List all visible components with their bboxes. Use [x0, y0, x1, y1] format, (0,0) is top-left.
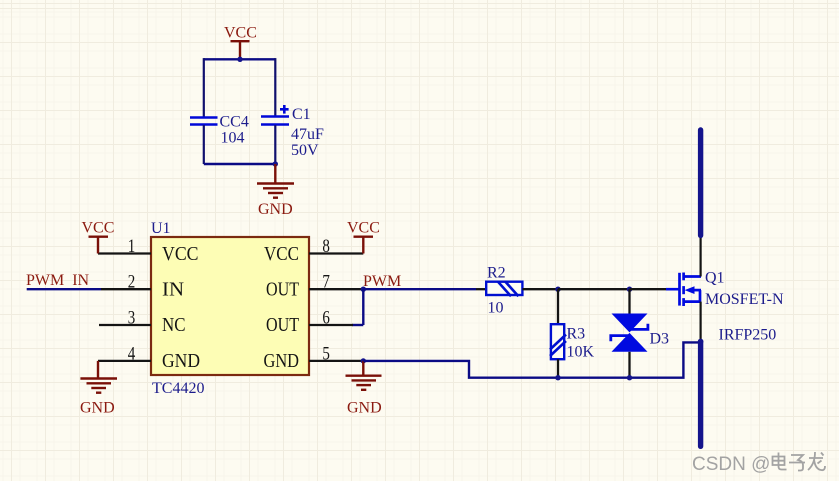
svg-text:R3: R3 — [567, 326, 586, 343]
wire: R2 to R3 node — [522, 288, 558, 290]
capacitor CC4 — [190, 118, 218, 125]
wire: node to D3 node — [558, 288, 630, 290]
svg-text:6: 6 — [322, 308, 330, 329]
pin 5 — [309, 360, 363, 362]
resistor R2 — [486, 282, 522, 297]
svg-text:VCC: VCC — [224, 25, 257, 42]
junction dot above GND — [273, 161, 278, 166]
svg-text:7: 7 — [322, 272, 330, 293]
wire: R3 top lead — [557, 289, 559, 324]
svg-text:4: 4 — [128, 343, 136, 364]
svg-text:PWM IN: PWM IN — [26, 272, 90, 289]
svg-text:PWM: PWM — [363, 273, 401, 290]
svg-text:5: 5 — [322, 343, 330, 364]
ground symbol (top circuit) — [257, 164, 294, 198]
svg-text:VCC: VCC — [347, 220, 380, 237]
svg-text:3: 3 — [128, 308, 136, 329]
svg-text:TC4420: TC4420 — [152, 380, 204, 397]
wire: pin7 to pin6 vertical — [362, 289, 364, 325]
wire: C1 bottom lead — [274, 125, 276, 164]
svg-text:10K: 10K — [567, 344, 595, 361]
ground symbol (pin 4) — [80, 361, 117, 393]
svg-text:47uF: 47uF — [291, 126, 324, 143]
wire PWM_IN — [27, 288, 101, 290]
power port VCC (top) — [231, 41, 250, 59]
svg-text:2: 2 — [128, 272, 136, 293]
svg-text:R2: R2 — [487, 265, 506, 282]
svg-text:CC4: CC4 — [220, 114, 249, 131]
wire: CC4 bottom lead — [203, 125, 205, 164]
pin 8 — [309, 252, 363, 254]
power port VCC (pin 8) — [354, 237, 374, 254]
Q1 arrow — [685, 286, 695, 294]
pin 6 — [309, 324, 353, 326]
svg-text:GND: GND — [258, 201, 293, 218]
svg-text:8: 8 — [322, 236, 330, 257]
power port VCC (pin 1) — [89, 237, 109, 254]
wire: PWM to R2 — [363, 288, 476, 290]
wire: D3 bottom lead — [628, 352, 630, 378]
wire: pin5 to bottom rail — [363, 342, 700, 377]
resistor R3 — [550, 324, 566, 359]
svg-text:MOSFET-N: MOSFET-N — [705, 291, 784, 308]
junction dot D3 bottom — [627, 375, 632, 380]
svg-text:OUT: OUT — [266, 280, 299, 301]
svg-text:VCC: VCC — [82, 220, 115, 237]
pin 2 — [101, 288, 151, 290]
op-amp/driver U1 body — [151, 237, 309, 375]
ground symbol (pin 5) — [346, 361, 382, 390]
junction dot at VCC stub — [237, 57, 242, 62]
wire: pin6 corner — [352, 324, 363, 326]
junction dot R3 top node — [555, 287, 560, 292]
wire: thick drain bus — [698, 130, 703, 236]
junction dot pin 5 — [361, 358, 366, 363]
svg-text:OUT: OUT — [266, 315, 299, 336]
wire: R3 bottom lead — [557, 359, 559, 378]
transistor Q1 symbol — [680, 273, 702, 307]
svg-text:C1: C1 — [292, 106, 311, 123]
wire: top horizontal — [204, 58, 275, 60]
wire: node to Q1 gate — [630, 288, 667, 290]
junction dot Q1 source — [698, 339, 704, 345]
pin 4 — [98, 360, 151, 362]
wire: thick source bus — [698, 342, 703, 447]
pin 3 — [99, 324, 151, 326]
pin 7 — [309, 288, 363, 290]
svg-text:VCC: VCC — [264, 244, 299, 265]
capacitor C1 (polarized) — [261, 105, 289, 125]
svg-text:CSDN @: CSDN @ — [692, 454, 770, 475]
diode D3 (bidirectional TVS) — [612, 314, 648, 352]
svg-text:Q1: Q1 — [705, 270, 725, 287]
svg-text:U1: U1 — [151, 220, 171, 237]
watermark glyph 电 — [773, 453, 787, 470]
wire: drain thin lead — [699, 235, 701, 277]
svg-text:10: 10 — [488, 300, 504, 317]
svg-text:1: 1 — [128, 236, 136, 257]
watermark glyph 子 — [789, 455, 805, 471]
pin 1 — [98, 252, 151, 254]
wire: bottom horizontal — [204, 163, 275, 165]
wire: source thin lead — [699, 302, 701, 342]
svg-text:GND: GND — [347, 400, 382, 417]
svg-text:GND: GND — [162, 351, 200, 372]
svg-text:D3: D3 — [650, 331, 670, 348]
svg-text:GND: GND — [80, 400, 115, 417]
svg-text:IRFP250: IRFP250 — [719, 327, 777, 344]
R2 left pin — [476, 288, 486, 290]
svg-text:104: 104 — [221, 130, 245, 147]
svg-text:NC: NC — [162, 315, 186, 336]
junction dot R3 bottom — [555, 375, 560, 380]
svg-text:VCC: VCC — [162, 244, 199, 265]
svg-text:GND: GND — [264, 351, 300, 372]
junction dot pin 7 — [361, 287, 366, 292]
svg-text:IN: IN — [162, 280, 184, 301]
watermark glyph 龙 — [808, 452, 825, 470]
wire: C1 top lead — [274, 58, 276, 116]
Q1 gate lead — [666, 288, 680, 291]
junction dot D3 top node — [627, 287, 632, 292]
wire: D3 top lead — [628, 289, 630, 314]
svg-text:50V: 50V — [291, 142, 319, 159]
wire: left vertical to CC4 — [203, 58, 205, 117]
